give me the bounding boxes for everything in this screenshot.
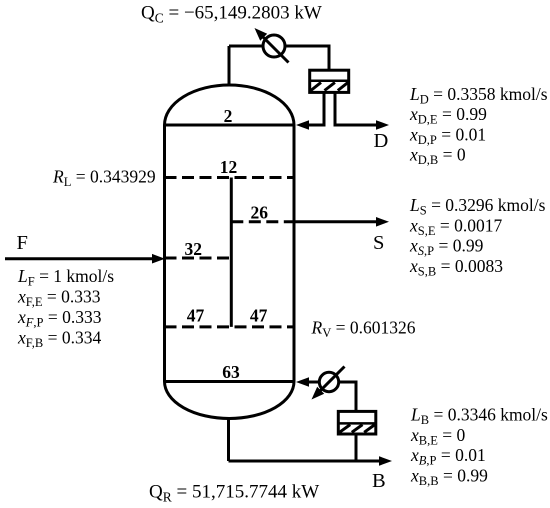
svg-text:LB = 0.3346 kmol/s: LB = 0.3346 kmol/s — [410, 405, 548, 428]
arrowhead: bottoms B — [379, 456, 392, 466]
wire: reboiler to drum — [339, 382, 357, 411]
svg-text:2: 2 — [224, 106, 233, 126]
svg-text:xS,E = 0.0017: xS,E = 0.0017 — [409, 215, 502, 238]
svg-text:47: 47 — [250, 306, 268, 326]
stage 47 dashed line — [165, 325, 295, 328]
svg-text:LS = 0.3296 kmol/s: LS = 0.3296 kmol/s — [409, 195, 546, 218]
svg-text:xF,B = 0.334: xF,B = 0.334 — [17, 328, 101, 351]
svg-text:26: 26 — [251, 202, 269, 222]
svg-text:xB,P = 0.01: xB,P = 0.01 — [410, 445, 486, 468]
arrowhead: reflux return into column — [296, 120, 309, 130]
svg-text:xB,B = 0.99: xB,B = 0.99 — [410, 466, 488, 489]
svg-text:xD,B = 0: xD,B = 0 — [409, 145, 466, 168]
column top dome — [165, 85, 295, 125]
svg-text:xF,E = 0.333: xF,E = 0.333 — [17, 287, 101, 310]
svg-text:S: S — [373, 232, 384, 254]
svg-text:D: D — [374, 130, 389, 152]
svg-text:F: F — [17, 232, 28, 254]
condenser heat arrow — [255, 28, 289, 63]
svg-text:LF = 1 kmol/s: LF = 1 kmol/s — [17, 266, 114, 289]
wire: bottoms line B — [229, 460, 381, 463]
reboiler heat arrow — [312, 367, 345, 400]
svg-text:QC = −65,149.2803 kW: QC = −65,149.2803 kW — [141, 3, 322, 26]
arrowhead: side draw S — [376, 217, 389, 227]
svg-text:xD,E = 0.99: xD,E = 0.99 — [409, 104, 487, 127]
svg-text:B: B — [372, 470, 386, 492]
svg-text:RV = 0.601326: RV = 0.601326 — [311, 318, 416, 341]
svg-text:xD,P = 0.01: xD,P = 0.01 — [409, 124, 486, 147]
stage 26 dashed line — [231, 220, 294, 223]
stage 63 line — [165, 380, 295, 383]
dividing wall — [230, 178, 233, 327]
wire: reboiler return line — [309, 381, 320, 384]
reboiler drum — [338, 411, 376, 434]
svg-text:xS,P = 0.99: xS,P = 0.99 — [409, 236, 484, 259]
svg-text:32: 32 — [184, 239, 202, 259]
wire: column top vapor stem — [228, 46, 231, 85]
arrowhead: feed into column — [152, 254, 165, 264]
svg-text:47: 47 — [187, 306, 205, 326]
stage 2 line — [165, 124, 295, 127]
svg-text:QR = 51,715.7744 kW: QR = 51,715.7744 kW — [149, 482, 319, 505]
wire: reflux drum left outlet — [308, 93, 324, 125]
condenser QC circle — [263, 35, 285, 57]
svg-text:xF,P = 0.333: xF,P = 0.333 — [17, 307, 102, 330]
wire: feed line F — [5, 257, 153, 260]
svg-text:xS,B = 0.0083: xS,B = 0.0083 — [409, 256, 503, 279]
reflux drum — [310, 70, 349, 92]
wire: distillate line — [335, 93, 377, 125]
svg-text:LD = 0.3358 kmol/s: LD = 0.3358 kmol/s — [409, 84, 548, 107]
svg-text:xB,E = 0: xB,E = 0 — [410, 425, 466, 448]
wire: column bottoms stem — [227, 418, 230, 461]
svg-text:12: 12 — [220, 157, 238, 177]
stage 32 dashed line — [165, 257, 232, 260]
arrowhead: distillate D — [376, 120, 389, 130]
stage 12 dashed line — [165, 176, 295, 179]
svg-text:63: 63 — [222, 362, 240, 382]
svg-text:RL = 0.343929: RL = 0.343929 — [52, 167, 156, 190]
reboiler QR circle — [319, 372, 338, 391]
wire: reboiler drum outlet — [355, 435, 358, 462]
column left wall — [163, 125, 166, 382]
column right wall — [293, 125, 296, 382]
wire: side draw S line — [294, 220, 377, 223]
wire: condenser overhead line — [229, 46, 329, 70]
arrowhead: boilup return into column — [296, 377, 309, 387]
column bottom dome — [165, 382, 295, 419]
